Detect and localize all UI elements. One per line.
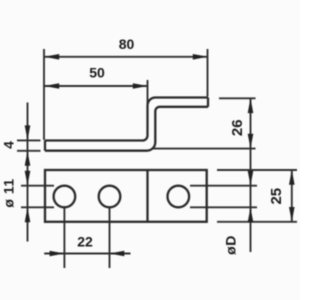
arrow 80 left bbox=[44, 54, 59, 60]
arrow 4 top (outside, points down) bbox=[25, 125, 31, 140]
arrow ø11 bottom (outside, points up) bbox=[25, 207, 31, 222]
svg-text:4: 4 bbox=[1, 141, 17, 149]
plate outline bbox=[45, 170, 207, 222]
svg-text:26: 26 bbox=[229, 119, 246, 136]
arrow 26 bottom (points down) bbox=[248, 134, 254, 149]
right vertical dimension line (shared 26 / øD) bbox=[250, 98, 252, 252]
arrow 22 right (outside, points left) bbox=[109, 251, 124, 257]
arrow ø11 top (outside, points down) bbox=[25, 171, 31, 186]
arrow 80 right bbox=[193, 54, 208, 60]
centerline hole2 (22 dim) bbox=[109, 208, 111, 268]
svg-text:25: 25 bbox=[268, 188, 285, 205]
arrow 25 top (points up) bbox=[289, 170, 295, 185]
extension bottom of bottom bar (26 dim) bbox=[153, 148, 256, 150]
arrow oD top (outside, points down) bbox=[248, 171, 254, 186]
arrow 50 left bbox=[44, 83, 59, 89]
arrow 25 bottom (points down) bbox=[289, 207, 295, 222]
hole 2 bbox=[99, 186, 121, 208]
arrow 50 right bbox=[133, 83, 148, 89]
centerline hole1 (22 dim) bbox=[63, 208, 65, 268]
svg-text:22: 22 bbox=[77, 234, 93, 250]
extension hole1 bottom edge (ø11 dim) bbox=[21, 206, 54, 208]
extension line right (x=207.5) for 80 dim bbox=[207, 49, 209, 97]
tick bar bottom edge (4 dim) bbox=[17, 150, 41, 152]
hole 3 (øD) bbox=[168, 186, 190, 208]
extension top of top bar (26 dim) bbox=[219, 97, 256, 99]
extension plate top edge (25 dim) bbox=[217, 169, 297, 171]
left end cap of flat bar bbox=[44, 141, 46, 151]
extension hole3 bottom edge (øD dim) bbox=[190, 206, 257, 208]
dimension line 50 bbox=[44, 85, 148, 87]
arrow 4 bottom (outside, points up) bbox=[25, 151, 31, 166]
dimension line 22 bbox=[44, 253, 130, 255]
profile lower contour bbox=[45, 107, 208, 151]
arrowheads bbox=[25, 54, 295, 256]
dimension line 25 bbox=[291, 170, 293, 222]
bend line in plan view bbox=[146, 170, 148, 222]
extension hole1 top edge (ø11 dim) bbox=[21, 185, 54, 187]
hole 1 bbox=[54, 186, 76, 208]
plan view of bracket plate bbox=[45, 170, 207, 222]
dimension line 80 bbox=[44, 56, 208, 58]
arrow 22 left (outside, points right) bbox=[50, 251, 65, 257]
svg-text:50: 50 bbox=[89, 65, 105, 81]
svg-text:øD: øD bbox=[223, 235, 239, 255]
tick bar top edge (4 dim) bbox=[17, 139, 41, 141]
arrow 26 top (points up) bbox=[248, 98, 254, 113]
profile upper contour bbox=[45, 98, 208, 141]
svg-text:80: 80 bbox=[119, 36, 135, 52]
side view Z-profile of bracket bbox=[45, 98, 208, 151]
arrow oD bottom (outside, points up) bbox=[248, 207, 254, 222]
extension line (x=147.5) above bend for 50 dim bbox=[147, 80, 149, 106]
svg-text:ø 11: ø 11 bbox=[1, 178, 17, 207]
right end cap of top leg bbox=[207, 98, 209, 107]
extension plate bottom edge (25 dim) bbox=[217, 221, 297, 223]
extension line left (x=44) for 80/50 dims bbox=[43, 49, 45, 140]
extension hole3 top edge (øD dim) bbox=[190, 185, 257, 187]
left vertical dimension line (shared 4 / ø11) bbox=[27, 103, 29, 242]
